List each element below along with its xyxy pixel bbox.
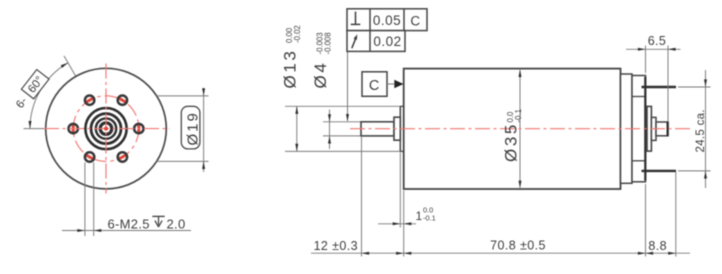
svg-text:Ø19: Ø19 xyxy=(185,111,202,145)
svg-text:70.8 ±0.5: 70.8 ±0.5 xyxy=(490,238,546,252)
svg-text:24.5 ca.: 24.5 ca. xyxy=(695,109,707,152)
svg-text:8.8: 8.8 xyxy=(648,239,667,253)
svg-text:Ø4: Ø4 xyxy=(311,61,330,89)
svg-text:Ø35: Ø35 xyxy=(502,122,521,162)
svg-text:-0.02: -0.02 xyxy=(293,25,302,43)
svg-text:6-M2.5: 6-M2.5 xyxy=(108,216,150,231)
svg-text:0.02: 0.02 xyxy=(373,34,401,49)
svg-text:C: C xyxy=(410,13,420,28)
svg-text:-0.1: -0.1 xyxy=(514,109,523,122)
svg-text:1: 1 xyxy=(416,209,423,223)
svg-text:6.5: 6.5 xyxy=(648,34,667,48)
svg-text:0.05: 0.05 xyxy=(373,13,401,28)
svg-text:-0.1: -0.1 xyxy=(423,213,436,222)
svg-text:2.0: 2.0 xyxy=(167,216,186,231)
svg-text:Ø13: Ø13 xyxy=(281,49,300,89)
svg-text:12 ±0.3: 12 ±0.3 xyxy=(314,239,358,253)
svg-text:C: C xyxy=(369,78,380,94)
svg-text:-0.008: -0.008 xyxy=(323,32,332,54)
